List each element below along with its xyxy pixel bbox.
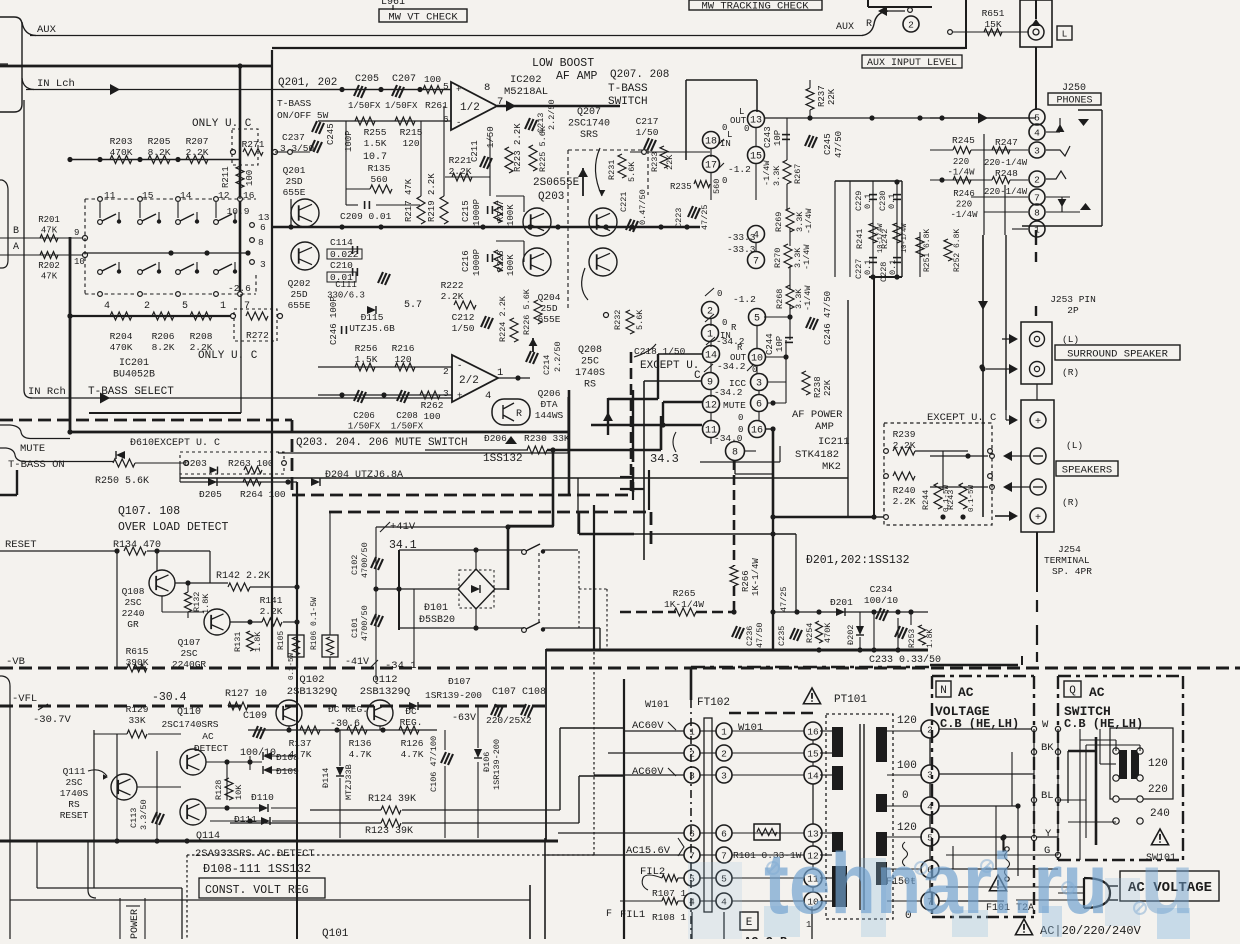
svg-text:100K: 100K	[506, 204, 516, 226]
svg-text:(R): (R)	[1062, 367, 1079, 378]
svg-text:(L): (L)	[1066, 440, 1083, 451]
svg-text:SP. 4PR: SP. 4PR	[1052, 566, 1092, 577]
svg-text:ÐTA: ÐTA	[540, 399, 557, 410]
svg-text:Q: Q	[1069, 685, 1076, 697]
svg-text:Q101: Q101	[322, 928, 349, 939]
svg-text:R: R	[516, 409, 522, 420]
svg-text:25C: 25C	[581, 357, 599, 368]
svg-text:1000P: 1000P	[472, 199, 482, 226]
svg-text:470K: 470K	[110, 342, 133, 353]
svg-text:8.2K: 8.2K	[148, 147, 171, 158]
svg-text:13: 13	[750, 116, 762, 127]
svg-text:R222: R222	[441, 280, 464, 291]
svg-text:GR: GR	[127, 619, 139, 630]
svg-text:9: 9	[74, 228, 79, 238]
svg-text:10-1/4W: 10-1/4W	[901, 223, 909, 253]
svg-text:C237: C237	[282, 132, 305, 143]
svg-text:R231: R231	[607, 160, 617, 180]
svg-text:17: 17	[705, 161, 717, 172]
svg-text:34.3: 34.3	[650, 452, 679, 466]
svg-text:C244: C244	[765, 333, 775, 355]
svg-text:C109: C109	[243, 711, 267, 722]
svg-text:Ð115: Ð115	[361, 312, 384, 323]
svg-text:TERMINAL: TERMINAL	[1044, 555, 1090, 566]
svg-text:REG.: REG.	[400, 717, 423, 728]
svg-text:4700/50: 4700/50	[360, 605, 370, 641]
svg-text:25D: 25D	[290, 289, 307, 300]
svg-text:1SR139-200: 1SR139-200	[492, 739, 502, 790]
svg-text:ÐC REG.: ÐC REG.	[328, 704, 368, 715]
svg-text:0: 0	[744, 124, 749, 134]
svg-text:R265: R265	[673, 588, 696, 599]
svg-text:2240: 2240	[122, 608, 145, 619]
svg-text:-30.7V: -30.7V	[33, 714, 72, 726]
svg-text:Q207: Q207	[577, 107, 601, 118]
svg-text:100: 100	[245, 170, 255, 186]
svg-text:BU4052B: BU4052B	[113, 370, 155, 381]
svg-text:R136: R136	[349, 738, 372, 749]
svg-text:AF AMP: AF AMP	[556, 70, 598, 83]
svg-text:1.5K: 1.5K	[355, 354, 378, 365]
svg-text:Ð206: Ð206	[484, 433, 507, 444]
svg-text:0.1: 0.1	[863, 194, 873, 209]
svg-text:0: 0	[738, 413, 743, 423]
svg-text:C212: C212	[452, 312, 475, 323]
svg-text:R252 6.8K: R252 6.8K	[953, 229, 962, 272]
svg-text:R226 5.6K: R226 5.6K	[522, 288, 532, 335]
svg-text:655E: 655E	[288, 300, 311, 311]
svg-text:2.2K: 2.2K	[441, 291, 464, 302]
svg-text:-34.2: -34.2	[714, 387, 743, 398]
svg-text:MTZJ33B: MTZJ33B	[344, 764, 354, 800]
svg-text:PT101: PT101	[834, 694, 867, 706]
svg-text:RS: RS	[68, 799, 80, 810]
svg-text:MUTE: MUTE	[20, 443, 45, 455]
svg-text:(L): (L)	[1062, 334, 1079, 345]
svg-text:47K: 47K	[41, 272, 58, 282]
svg-text:5.6K: 5.6K	[635, 309, 645, 330]
svg-text:C207: C207	[392, 74, 416, 85]
svg-text:-1/4W: -1/4W	[762, 160, 772, 186]
svg-text:1.8K: 1.8K	[253, 631, 263, 652]
svg-text:AUX: AUX	[836, 22, 854, 33]
svg-text:4.7K: 4.7K	[401, 749, 424, 760]
svg-text:15K: 15K	[984, 19, 1001, 30]
svg-text:LOW BOOST: LOW BOOST	[532, 57, 594, 70]
svg-text:R272: R272	[246, 330, 269, 341]
svg-text:120: 120	[897, 715, 917, 727]
svg-text:C245: C245	[823, 133, 833, 155]
svg-text:Ð111: Ð111	[234, 814, 257, 825]
svg-text:R: R	[866, 19, 872, 30]
svg-text:R270: R270	[773, 248, 783, 268]
svg-text:10: 10	[751, 354, 763, 365]
svg-text:220-1/4W: 220-1/4W	[984, 187, 1028, 197]
svg-text:IN: IN	[720, 139, 731, 149]
svg-text:R248: R248	[995, 168, 1018, 179]
svg-text:8: 8	[732, 448, 738, 459]
svg-text:4: 4	[104, 301, 110, 312]
svg-text:0.022: 0.022	[330, 249, 359, 260]
svg-text:2.2K: 2.2K	[186, 147, 209, 158]
svg-text:-41V: -41V	[345, 657, 369, 668]
svg-text:R207: R207	[186, 136, 209, 147]
svg-text:100K: 100K	[506, 254, 516, 276]
svg-text:Q207. 208: Q207. 208	[610, 69, 669, 81]
svg-text:AUX: AUX	[37, 24, 57, 36]
svg-text:1/2: 1/2	[460, 102, 480, 114]
svg-text:R134 470: R134 470	[113, 540, 161, 551]
svg-text:T-BASS SELECT: T-BASS SELECT	[88, 386, 174, 398]
svg-text:2/2: 2/2	[459, 375, 479, 387]
svg-text:1.5K: 1.5K	[364, 138, 387, 149]
svg-text:Q107. 108: Q107. 108	[118, 505, 180, 518]
svg-text:C218 1/50: C218 1/50	[634, 346, 686, 357]
svg-text:AF POWER: AF POWER	[792, 409, 843, 421]
svg-text:Q107: Q107	[178, 637, 201, 648]
svg-text:Ð110: Ð110	[251, 792, 274, 803]
svg-text:1/50: 1/50	[486, 126, 496, 148]
svg-text:AC60V: AC60V	[632, 766, 664, 778]
svg-text:BL: BL	[1041, 790, 1054, 802]
svg-text:Q108: Q108	[122, 586, 145, 597]
svg-text:12: 12	[705, 401, 717, 412]
svg-text:2SD: 2SD	[285, 176, 302, 187]
svg-text:R224 2.2K: R224 2.2K	[498, 295, 508, 342]
svg-text:R208: R208	[190, 331, 213, 342]
svg-text:8.2K: 8.2K	[152, 342, 175, 353]
svg-text:10.7: 10.7	[363, 152, 387, 163]
svg-text:C208: C208	[396, 411, 418, 421]
svg-text:CONST. VOLT REG: CONST. VOLT REG	[205, 884, 309, 897]
svg-text:1SR139-200: 1SR139-200	[425, 690, 482, 701]
svg-text:C106 47/100: C106 47/100	[429, 736, 439, 792]
svg-text:1/50: 1/50	[452, 323, 475, 334]
svg-text:Q201, 202: Q201, 202	[278, 77, 337, 89]
svg-text:2SC1740: 2SC1740	[568, 119, 610, 130]
svg-text:2: 2	[443, 366, 449, 377]
svg-text:Q208: Q208	[578, 345, 602, 356]
svg-text:R128: R128	[214, 780, 224, 800]
svg-text:W101: W101	[738, 722, 763, 734]
svg-text:1/50FX: 1/50FX	[348, 101, 381, 111]
svg-text:R233: R233	[650, 152, 660, 172]
svg-text:-30.4: -30.4	[152, 691, 187, 704]
svg-text:0.1: 0.1	[887, 194, 897, 209]
svg-text:3: 3	[1034, 145, 1040, 156]
svg-text:F: F	[606, 909, 612, 920]
svg-text:R262: R262	[421, 400, 444, 411]
svg-text:1740S: 1740S	[60, 788, 89, 799]
svg-text:3.3/50: 3.3/50	[139, 799, 149, 830]
svg-text:R235: R235	[670, 182, 692, 192]
svg-text:1: 1	[721, 726, 727, 737]
svg-text:UTZJ5.6B: UTZJ5.6B	[349, 323, 395, 334]
svg-text:-1/4W: -1/4W	[802, 244, 812, 270]
svg-text:8: 8	[484, 82, 490, 94]
svg-text:C235: C235	[777, 626, 787, 646]
svg-text:-1.2: -1.2	[733, 294, 756, 305]
svg-text:-1/4W: -1/4W	[803, 285, 813, 311]
svg-text:470K: 470K	[823, 622, 833, 643]
svg-text:100: 100	[424, 74, 441, 85]
svg-text:-34.1: -34.1	[385, 660, 417, 672]
svg-text:C246 100P: C246 100P	[329, 296, 339, 345]
svg-text:1/50FX: 1/50FX	[348, 422, 381, 432]
svg-text:C216: C216	[461, 250, 471, 272]
svg-text:0.1-5W: 0.1-5W	[288, 652, 296, 680]
svg-text:3: 3	[689, 770, 695, 781]
svg-text:6: 6	[260, 222, 266, 233]
svg-text:C.B (HE,LH): C.B (HE,LH)	[1064, 717, 1143, 731]
svg-text:R253: R253	[908, 629, 917, 648]
svg-text:R230 33K: R230 33K	[524, 433, 570, 444]
svg-text:C214: C214	[542, 355, 552, 375]
svg-text:R205: R205	[148, 136, 171, 147]
svg-text:Q110: Q110	[177, 707, 201, 718]
svg-text:2SC: 2SC	[124, 597, 141, 608]
svg-text:AC: AC	[1089, 685, 1105, 700]
svg-text:100: 100	[423, 411, 440, 422]
svg-text:560: 560	[370, 174, 387, 185]
svg-text:2: 2	[689, 748, 695, 759]
svg-text:0.1-5W: 0.1-5W	[968, 484, 976, 512]
svg-text:2: 2	[144, 301, 150, 312]
svg-text:tehnari.ru: tehnari.ru	[764, 836, 1108, 932]
svg-text:C107 C108: C107 C108	[492, 687, 546, 698]
svg-text:SWITCH: SWITCH	[608, 96, 648, 108]
svg-text:R239: R239	[893, 429, 916, 440]
svg-text:R137: R137	[289, 738, 312, 749]
svg-text:22K: 22K	[823, 379, 833, 396]
svg-text:Q102: Q102	[299, 674, 324, 686]
svg-text:C114: C114	[330, 237, 353, 248]
svg-text:C113: C113	[129, 808, 139, 828]
svg-text:R108 1: R108 1	[652, 912, 687, 923]
svg-text:Ð205: Ð205	[199, 489, 222, 500]
svg-text:2SC1740SRS: 2SC1740SRS	[161, 719, 218, 730]
svg-text:Q203. 204. 206 MUTE SWITCH: Q203. 204. 206 MUTE SWITCH	[296, 437, 468, 449]
svg-text:EXCEPT U.: EXCEPT U.	[640, 360, 699, 372]
svg-text:16: 16	[751, 426, 763, 437]
svg-text:14: 14	[807, 770, 819, 781]
svg-text:R129: R129	[126, 704, 149, 715]
svg-text:Ð610EXCEPT U. C: Ð610EXCEPT U. C	[130, 438, 220, 449]
svg-text:SURROUND SPEAKER: SURROUND SPEAKER	[1067, 348, 1169, 360]
svg-text:R127 10: R127 10	[225, 689, 267, 700]
svg-text:AMP: AMP	[815, 421, 834, 433]
svg-text:120: 120	[897, 822, 917, 834]
svg-text:18: 18	[705, 137, 717, 148]
svg-text:SPEAKERS: SPEAKERS	[1062, 464, 1112, 476]
svg-text:R211: R211	[221, 166, 231, 188]
svg-text:C223: C223	[674, 208, 684, 228]
svg-text:+: +	[457, 391, 462, 401]
svg-text:3: 3	[260, 259, 266, 270]
svg-text:0: 0	[722, 176, 727, 186]
svg-text:R107 1: R107 1	[652, 888, 687, 899]
svg-text:FT102: FT102	[697, 697, 730, 709]
svg-text:ON/OFF 5W: ON/OFF 5W	[277, 110, 329, 121]
svg-text:R223 2.2K: R223 2.2K	[513, 123, 523, 172]
svg-text:120: 120	[394, 354, 411, 365]
svg-text:Ð108-111 1SS132: Ð108-111 1SS132	[203, 862, 311, 876]
svg-text:4: 4	[485, 390, 491, 402]
svg-text:Q202: Q202	[288, 278, 311, 289]
svg-text:ONLY U. C: ONLY U. C	[198, 350, 258, 362]
svg-text:R135: R135	[368, 163, 391, 174]
svg-text:-VB: -VB	[6, 656, 25, 668]
svg-text:47/50: 47/50	[834, 131, 844, 158]
svg-text:-33.3: -33.3	[727, 232, 756, 243]
svg-text:Q114: Q114	[196, 831, 220, 842]
svg-text:0: 0	[717, 289, 722, 299]
svg-text:3: 3	[756, 379, 762, 390]
svg-text:R266: R266	[741, 570, 751, 592]
svg-text:8: 8	[1034, 207, 1040, 218]
svg-text:R124 39K: R124 39K	[368, 794, 416, 805]
svg-text:B: B	[13, 226, 19, 237]
svg-text:Q111: Q111	[63, 766, 86, 777]
svg-text:Ð107: Ð107	[448, 676, 471, 687]
svg-text:10K: 10K	[234, 784, 244, 800]
svg-text:Q201: Q201	[283, 165, 306, 176]
svg-text:1: 1	[1034, 224, 1040, 235]
svg-text:-30.6: -30.6	[330, 719, 360, 730]
svg-text:6: 6	[756, 400, 762, 411]
svg-text:R106 0.1-5W: R106 0.1-5W	[310, 597, 319, 650]
svg-text:-1/4W: -1/4W	[947, 168, 975, 178]
svg-text:R245: R245	[952, 135, 975, 146]
svg-text:C210: C210	[330, 260, 353, 271]
svg-text:ÐETECT: ÐETECT	[194, 743, 229, 754]
svg-text:R131: R131	[233, 632, 243, 652]
svg-text:Ð202: Ð202	[846, 625, 856, 645]
svg-text:10: 10	[74, 257, 85, 267]
svg-text:1.8K: 1.8K	[926, 629, 935, 648]
svg-text:Q204: Q204	[538, 292, 561, 303]
svg-text:T-BASS: T-BASS	[277, 98, 312, 109]
svg-text:-: -	[456, 118, 461, 128]
svg-text:1000P: 1000P	[472, 249, 482, 276]
svg-text:u: u	[1140, 836, 1195, 932]
svg-text:7: 7	[689, 850, 695, 861]
svg-text:100/10: 100/10	[864, 595, 899, 606]
svg-text:Ð108: Ð108	[276, 752, 299, 763]
svg-text:220-1/4W: 220-1/4W	[984, 158, 1028, 168]
svg-text:IC202: IC202	[510, 74, 542, 86]
svg-text:4: 4	[1034, 127, 1040, 138]
svg-text:15: 15	[750, 152, 762, 163]
svg-text:47/50: 47/50	[755, 622, 765, 648]
svg-text:STK4182: STK4182	[795, 449, 839, 461]
svg-text:47K: 47K	[41, 226, 58, 236]
svg-text:C233 0.33/50: C233 0.33/50	[869, 654, 941, 666]
svg-text:R267: R267	[793, 164, 803, 184]
svg-text:OVER LOAD DETECT: OVER LOAD DETECT	[118, 521, 229, 534]
svg-text:C245: C245	[326, 123, 336, 145]
svg-text:7: 7	[721, 850, 727, 861]
svg-text:Ð106: Ð106	[482, 752, 492, 772]
svg-text:A: A	[13, 242, 19, 253]
svg-text:W: W	[1042, 719, 1049, 731]
svg-text:R615: R615	[126, 646, 149, 657]
svg-text:FIL1: FIL1	[620, 909, 645, 921]
svg-text:6: 6	[689, 828, 695, 839]
svg-text:RESET: RESET	[5, 539, 37, 551]
svg-text:144WS: 144WS	[535, 410, 564, 421]
svg-text:R243: R243	[946, 490, 956, 510]
svg-text:C205: C205	[355, 74, 379, 85]
svg-text:2S0655E: 2S0655E	[533, 177, 580, 189]
svg-text:N: N	[940, 685, 947, 697]
svg-text:BK: BK	[1041, 742, 1054, 754]
svg-text:0: 0	[722, 318, 727, 328]
svg-text:2SB1329Q: 2SB1329Q	[287, 686, 337, 698]
svg-text:R219 2.2K: R219 2.2K	[427, 173, 437, 222]
svg-text:RS: RS	[584, 380, 596, 391]
svg-text:IN Rch: IN Rch	[28, 386, 66, 398]
svg-text:Q112: Q112	[372, 674, 397, 686]
svg-text:1K-1/4W: 1K-1/4W	[751, 558, 761, 596]
svg-text:2: 2	[721, 748, 727, 759]
svg-text:3: 3	[721, 770, 727, 781]
svg-text:6: 6	[721, 828, 727, 839]
svg-text:IC211: IC211	[818, 436, 850, 448]
svg-text:R: R	[731, 323, 737, 333]
svg-text:10P: 10P	[775, 336, 785, 352]
svg-text:POWER: POWER	[130, 909, 141, 939]
svg-text:9: 9	[707, 378, 713, 389]
svg-text:J253 PIN: J253 PIN	[1050, 294, 1096, 305]
svg-text:Ð201,202:1SS132: Ð201,202:1SS132	[806, 554, 910, 567]
svg-text:5: 5	[443, 81, 449, 92]
svg-text:655E: 655E	[538, 314, 561, 325]
svg-text:-33.3: -33.3	[727, 244, 756, 255]
svg-text:R240: R240	[893, 485, 916, 496]
svg-text:220: 220	[953, 157, 969, 167]
svg-text:R261: R261	[425, 100, 448, 111]
svg-text:2P: 2P	[1067, 305, 1079, 316]
svg-text:R255: R255	[364, 127, 387, 138]
svg-text:Ð201: Ð201	[830, 597, 853, 608]
svg-text:2.2K: 2.2K	[260, 606, 283, 617]
svg-text:R269: R269	[774, 212, 784, 232]
svg-text:2SC: 2SC	[180, 648, 197, 659]
svg-text:MUTE: MUTE	[723, 400, 746, 411]
svg-text:4.7K: 4.7K	[349, 749, 372, 760]
svg-text:5.7: 5.7	[404, 300, 422, 311]
svg-text:R254: R254	[805, 623, 815, 643]
svg-text:C101: C101	[350, 618, 360, 638]
svg-text:C215: C215	[461, 200, 471, 222]
svg-text:2.2/50: 2.2/50	[553, 341, 563, 372]
svg-text:2.2K: 2.2K	[893, 496, 916, 507]
svg-text:3.3K: 3.3K	[772, 165, 782, 186]
svg-text:C211: C211	[470, 140, 480, 162]
svg-text:R: R	[737, 343, 743, 353]
svg-text:AUX INPUT LEVEL: AUX INPUT LEVEL	[867, 58, 957, 69]
svg-text:R232: R232	[613, 310, 623, 330]
svg-text:470K: 470K	[110, 147, 133, 158]
svg-text:220/25X2: 220/25X2	[486, 715, 532, 726]
svg-text:220: 220	[956, 200, 972, 210]
svg-text:1/50FX: 1/50FX	[385, 101, 418, 111]
svg-text:T-BASS: T-BASS	[608, 83, 648, 95]
svg-text:R123 39K: R123 39K	[365, 826, 413, 837]
svg-text:-1/4W: -1/4W	[804, 208, 814, 234]
svg-text:5.6K: 5.6K	[627, 161, 637, 182]
